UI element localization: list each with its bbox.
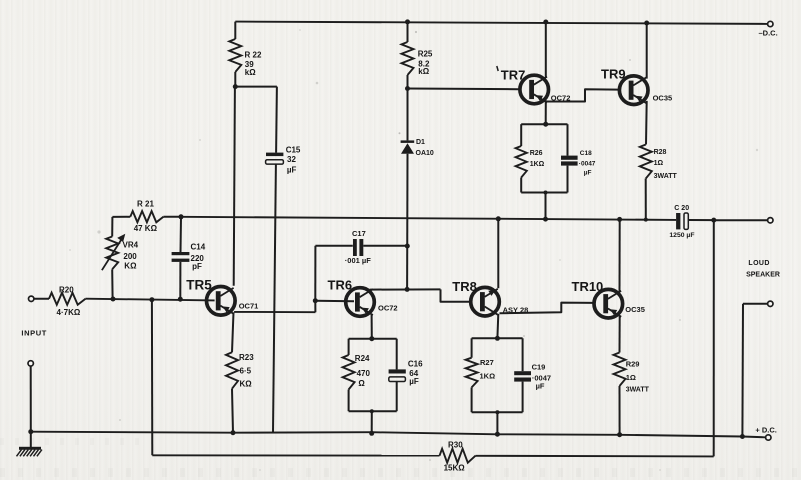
wire ground (+) rail bbox=[31, 432, 765, 438]
node R27/C19 on ground rail bbox=[495, 432, 500, 437]
wire C18 bottom lead bbox=[567, 166, 569, 193]
svg-text:47 KΩ: 47 KΩ bbox=[134, 224, 158, 233]
svg-text:15KΩ: 15KΩ bbox=[444, 463, 466, 472]
svg-text:µF: µF bbox=[409, 377, 419, 386]
wire R24/C16 stem to ground rail bbox=[371, 411, 373, 433]
svg-text:KΩ: KΩ bbox=[240, 380, 253, 389]
resistor R28 bbox=[640, 145, 652, 179]
wire TR10 collector to mid rail bbox=[619, 219, 621, 292]
svg-text:+ D.C.: + D.C. bbox=[755, 425, 776, 434]
svg-text:Ω: Ω bbox=[358, 379, 365, 388]
resistor R30 bbox=[440, 449, 476, 463]
svg-text:1250 µF: 1250 µF bbox=[669, 232, 694, 239]
svg-text:LOUD: LOUD bbox=[748, 260, 769, 267]
svg-text:pF: pF bbox=[192, 262, 202, 271]
node TR10 collector on mid rail bbox=[617, 217, 622, 222]
node R24/C16 on ground rail bbox=[369, 431, 374, 436]
svg-text:R23: R23 bbox=[239, 353, 254, 362]
svg-text:C15: C15 bbox=[286, 145, 301, 154]
node R23 on ground rail bbox=[231, 430, 236, 435]
wire R29 to ground rail bbox=[619, 386, 621, 435]
wire C16 top lead bbox=[396, 339, 398, 370]
wire TR6 base node to C17 bbox=[314, 246, 316, 301]
wire VR4 top to R21 bbox=[111, 217, 113, 237]
node C17/D1 junction bbox=[405, 244, 410, 249]
svg-text:3WATT: 3WATT bbox=[626, 387, 650, 394]
svg-text:R30: R30 bbox=[448, 441, 463, 450]
capacitor C18 plate 2 bbox=[561, 161, 578, 165]
wire R27/C19 box bottom bar bbox=[472, 411, 523, 413]
wire D1 top lead bbox=[407, 89, 409, 141]
wire C16 bottom lead bbox=[396, 382, 398, 412]
wire speaker return to +rail bbox=[741, 304, 744, 437]
svg-text:C16: C16 bbox=[408, 360, 423, 369]
resistor R25 bbox=[402, 42, 414, 75]
resistor R27 bbox=[466, 358, 478, 388]
wire R27 top lead bbox=[471, 338, 473, 357]
svg-text:1KΩ: 1KΩ bbox=[530, 161, 545, 168]
diode D1 triangle bbox=[401, 143, 414, 154]
wire C17 right lead bbox=[363, 245, 407, 247]
terminal loudspeaker bottom bbox=[768, 301, 773, 306]
scan speckles bbox=[415, 31, 417, 33]
wire R22 bottom lead bbox=[234, 72, 236, 87]
svg-text:R24: R24 bbox=[355, 354, 370, 363]
svg-text:200: 200 bbox=[123, 252, 137, 261]
wire jog to C15 bbox=[235, 86, 277, 88]
node stem on mid rail bbox=[543, 217, 548, 222]
wire R28 to mid rail bbox=[645, 179, 647, 220]
wire TR7 emitter drop bbox=[545, 100, 547, 124]
svg-text:KΩ: KΩ bbox=[124, 261, 137, 270]
svg-text:R26: R26 bbox=[530, 150, 543, 157]
svg-text:·0047: ·0047 bbox=[579, 160, 596, 167]
wire TR6 emitter drop bbox=[371, 314, 373, 339]
wire R21 left lead bbox=[112, 216, 130, 218]
svg-text:OC71: OC71 bbox=[239, 301, 259, 310]
svg-text:R27: R27 bbox=[480, 358, 494, 367]
node C14 bottom on base line bbox=[178, 297, 183, 302]
wire TR5 emitter corner up bbox=[314, 301, 316, 313]
svg-text:kΩ: kΩ bbox=[245, 68, 256, 77]
svg-text:µF: µF bbox=[287, 166, 297, 175]
wire TR6 base bbox=[315, 300, 354, 303]
terminal loudspeaker top bbox=[768, 218, 773, 223]
capacitor C16 minus plate bbox=[389, 377, 406, 382]
wire output to speaker terminal bbox=[714, 219, 767, 221]
svg-text:R 21: R 21 bbox=[137, 199, 154, 208]
wire D1 to TR6 collector node bbox=[406, 154, 408, 290]
terminal input bottom bbox=[28, 361, 33, 366]
wire feedback riser to output node bbox=[713, 220, 715, 456]
ground chassis hatching bbox=[17, 450, 22, 457]
capacitor C20 plus plate bbox=[676, 213, 680, 229]
node TR6 base junction bbox=[313, 298, 318, 303]
resistor R21 bbox=[130, 211, 163, 222]
transistor TR10 (OC35) bbox=[594, 289, 623, 318]
resistor R22 bbox=[229, 39, 241, 72]
wire feedback bottom run left bbox=[152, 454, 439, 456]
svg-text:470: 470 bbox=[357, 369, 371, 378]
capacitor C17 plate 2 bbox=[359, 239, 363, 256]
capacitor C19 plate 1 bbox=[514, 371, 531, 375]
wire TR9 collector to top rail bbox=[646, 23, 648, 79]
wire C15 to ground rail bbox=[273, 164, 276, 433]
wire VR4 bottom lead bbox=[111, 269, 113, 299]
potentiometer VR4 bbox=[106, 237, 118, 270]
svg-text:R29: R29 bbox=[626, 360, 640, 369]
node input ground junction bbox=[28, 429, 33, 434]
wire TR10 emitter to R29 bbox=[619, 315, 621, 352]
node R24/C16 bottom bbox=[370, 409, 374, 413]
node R26/C18 bottom bbox=[544, 191, 548, 195]
terminal input top bbox=[29, 296, 34, 301]
svg-text:6·5: 6·5 bbox=[240, 366, 252, 375]
wire input to R20 bbox=[34, 298, 49, 300]
wire R26/C18 box top bar bbox=[521, 123, 567, 125]
wire R24 bottom lead bbox=[348, 390, 350, 412]
transistor TR9 (OC35) bbox=[619, 76, 648, 105]
svg-text:µF: µF bbox=[536, 382, 545, 391]
wire C14 top lead bbox=[180, 217, 183, 252]
svg-text:OC35: OC35 bbox=[625, 305, 645, 314]
wire speaker bottom lead bbox=[743, 303, 767, 305]
wire R26 top lead bbox=[520, 124, 522, 146]
svg-text:1Ω: 1Ω bbox=[626, 373, 636, 382]
wire TR5 emitter drop to R23 bbox=[232, 312, 234, 352]
transistor TR5 (OC71) bbox=[207, 287, 236, 316]
svg-text:R20: R20 bbox=[59, 285, 74, 294]
capacitor C18 plate 1 bbox=[561, 156, 578, 160]
svg-text:3WATT: 3WATT bbox=[654, 173, 678, 180]
svg-text:C 20: C 20 bbox=[674, 205, 689, 212]
wire TR7 collector to top rail bbox=[545, 22, 547, 78]
wire R24 top lead bbox=[348, 339, 350, 355]
node R26/C18 top bbox=[543, 122, 548, 127]
node TR8 emitter on mid rail bbox=[496, 216, 501, 221]
wire TR6 collector to node bbox=[370, 288, 441, 290]
wire R26/C18 stem to mid rail bbox=[545, 193, 547, 220]
wire R26/C18 box bottom bar bbox=[521, 192, 567, 194]
svg-text:TR6: TR6 bbox=[328, 278, 353, 293]
wire C14 bottom lead bbox=[179, 262, 181, 299]
node R24/C16 top bbox=[369, 336, 374, 341]
wire TR7 emitter to TR9 base bbox=[547, 89, 619, 101]
wire R25 bottom lead bbox=[407, 75, 409, 89]
node R27/C19 top bbox=[495, 336, 500, 341]
svg-text:C17: C17 bbox=[352, 229, 366, 238]
wire base line R20 to TR5 bbox=[86, 299, 215, 301]
resistor R20 bbox=[49, 293, 86, 305]
wire C19 bottom lead bbox=[522, 382, 524, 413]
wire step down to TR8 base bbox=[441, 289, 470, 301]
svg-text:INPUT: INPUT bbox=[21, 328, 47, 337]
wire input bottom to rail bbox=[30, 367, 32, 432]
svg-text:VR4: VR4 bbox=[123, 241, 139, 250]
node TR7 collector on rail bbox=[543, 20, 548, 25]
node R21/C14/mid-rail bbox=[179, 214, 184, 219]
transistor TR6 (OC72) bbox=[346, 288, 375, 317]
tick before TR7 bbox=[497, 66, 498, 71]
capacitor C15 plus plate bbox=[266, 153, 283, 157]
wire TR5 collector riser bbox=[234, 87, 235, 286]
svg-text:µF: µF bbox=[584, 169, 592, 176]
wire TR8 collector to TR10 base bbox=[500, 303, 593, 314]
wire R23 to ground rail bbox=[232, 389, 233, 433]
transistor TR8 (ASY28) bbox=[471, 287, 500, 316]
wire R27/C19 box top bar bbox=[472, 337, 523, 339]
wire R25 top lead bbox=[407, 22, 409, 42]
wire TR7 base bbox=[408, 88, 519, 91]
svg-text:C19: C19 bbox=[532, 363, 546, 372]
node R22/C15/TR5-collector bbox=[233, 84, 238, 89]
wire C15 top lead bbox=[275, 87, 278, 153]
resistor R23 bbox=[226, 352, 238, 388]
wire TR5 emitter right to TR6 node bbox=[234, 311, 315, 313]
svg-text:32: 32 bbox=[287, 155, 296, 164]
resistor R26 bbox=[516, 146, 527, 178]
wire R27/C19 stem to ground rail bbox=[496, 412, 498, 434]
capacitor C16 plus plate bbox=[389, 369, 406, 373]
node R28 on mid rail bbox=[644, 218, 648, 222]
node R29 on ground rail bbox=[617, 432, 622, 437]
node R25/TR7 base/D1 bbox=[405, 86, 410, 91]
wire R24/C16 box bottom bar bbox=[349, 410, 397, 412]
capacitor C20 minus plate bbox=[684, 213, 688, 229]
capacitor C14 plate 2 bbox=[172, 259, 190, 262]
terminal -D.C. bbox=[768, 21, 773, 26]
svg-text:R28: R28 bbox=[654, 149, 667, 156]
node speaker return on ground rail bbox=[740, 434, 745, 439]
transistor TR7 (OC72) bbox=[520, 75, 549, 104]
svg-text:kΩ: kΩ bbox=[418, 67, 429, 76]
capacitor C19 plate 2 bbox=[514, 378, 531, 382]
wire feedback riser (TR5 base) bbox=[151, 300, 153, 456]
diode D1 cathode bar bbox=[401, 140, 415, 143]
pot VR4 wiper arrow bbox=[102, 238, 123, 271]
node R27/C19 bottom bbox=[495, 410, 499, 414]
node R25 top on rail bbox=[405, 19, 410, 24]
node TR6 collector/D1 bbox=[405, 287, 410, 292]
svg-text:TR10: TR10 bbox=[572, 279, 604, 294]
node feedback junction on base line bbox=[149, 297, 154, 302]
svg-text:C14: C14 bbox=[191, 242, 206, 251]
svg-text:1Ω: 1Ω bbox=[654, 160, 664, 167]
wire C19 top lead bbox=[522, 338, 524, 371]
svg-text:R 22: R 22 bbox=[245, 50, 262, 59]
ground chassis bar bbox=[19, 447, 41, 450]
wire TR8 collector drop bbox=[496, 314, 499, 339]
svg-text:TR5: TR5 bbox=[186, 277, 212, 292]
svg-text:C18: C18 bbox=[580, 150, 592, 157]
wire stub to chassis ground bbox=[30, 432, 32, 448]
wire R24/C16 box top bar bbox=[349, 338, 397, 340]
svg-text:·001 µF: ·001 µF bbox=[345, 256, 371, 265]
wire TR9 emitter to R28 bbox=[645, 101, 648, 145]
svg-text:OC72: OC72 bbox=[378, 303, 398, 312]
wire C18 top lead bbox=[567, 124, 569, 155]
wire R27 bottom lead bbox=[471, 387, 473, 412]
wire top supply rail bbox=[235, 22, 767, 24]
resistor R29 bbox=[614, 353, 626, 387]
wire mid output rail bbox=[181, 217, 676, 220]
svg-text:TR8: TR8 bbox=[452, 279, 477, 294]
svg-text:OA10: OA10 bbox=[416, 150, 434, 157]
svg-text:D1: D1 bbox=[416, 139, 425, 146]
resistor R24 bbox=[343, 355, 355, 390]
wire R22 top lead bbox=[234, 22, 236, 39]
terminal +D.C. bbox=[766, 435, 771, 440]
wire R21 right lead bbox=[163, 216, 181, 218]
wire TR8 emitter to mid rail bbox=[497, 219, 499, 288]
wire C20 to output node bbox=[689, 219, 714, 221]
wire C17 left lead bbox=[315, 245, 352, 247]
svg-text:OC35: OC35 bbox=[653, 93, 673, 102]
svg-text:–D.C.: –D.C. bbox=[759, 29, 778, 38]
svg-text:1KΩ: 1KΩ bbox=[480, 372, 496, 381]
svg-text:R25: R25 bbox=[418, 49, 433, 58]
svg-text:SPEAKER: SPEAKER bbox=[746, 272, 780, 279]
capacitor C17 plate 1 bbox=[353, 239, 357, 256]
svg-text:TR9: TR9 bbox=[601, 67, 626, 82]
wire feedback bottom run right bbox=[476, 455, 714, 458]
svg-text:TR7: TR7 bbox=[501, 67, 526, 82]
node output junction bbox=[711, 218, 716, 223]
capacitor C14 plate 1 bbox=[172, 252, 190, 255]
svg-text:4·7KΩ: 4·7KΩ bbox=[57, 308, 81, 317]
wire R26 bottom lead bbox=[520, 178, 522, 193]
node VR4 bottom on base line bbox=[111, 297, 116, 302]
node TR9 collector on rail bbox=[644, 21, 649, 26]
capacitor C15 minus plate bbox=[266, 160, 284, 164]
